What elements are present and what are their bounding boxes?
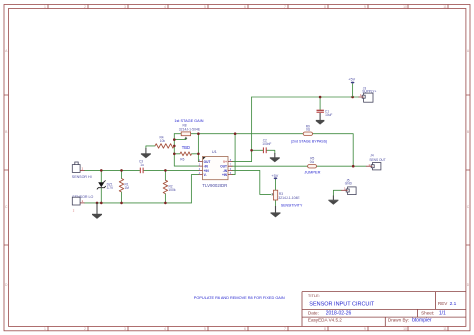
wire: R2 top lead	[164, 170, 166, 180]
svg-text:11: 11	[443, 327, 447, 331]
wire: R3 bottom stem to ground	[275, 200, 277, 207]
svg-text:TLV9002IDR: TLV9002IDR	[202, 183, 227, 188]
svg-text:10uF: 10uF	[325, 113, 332, 117]
right ticks	[466, 95, 470, 245]
capacitor C1 10uF	[317, 110, 333, 117]
svg-text:SENSOR INPUT CIRCUIT: SENSOR INPUT CIRCUIT	[309, 301, 375, 307]
svg-text:Date:: Date:	[308, 311, 319, 316]
wire: R5 right to J4	[317, 165, 367, 167]
junction DZ1 bottom on GND net	[100, 202, 103, 205]
resistor R2 100k	[163, 180, 176, 194]
svg-text:8: 8	[324, 327, 326, 331]
svg-text:Sheet:: Sheet:	[421, 311, 434, 316]
wire: R9 right to J4 node	[313, 134, 354, 167]
svg-text:2.1: 2.1	[450, 301, 457, 307]
junction R1 top on SENSOR_HI net	[120, 169, 123, 172]
+5V power flag (R3)	[271, 174, 278, 179]
svg-text:4: 4	[164, 5, 166, 9]
wire: branch down to +IN B	[232, 134, 235, 175]
wire: C2 right to ground	[267, 150, 275, 153]
wire: J5 to ground	[333, 190, 341, 196]
resistor R4 10k	[155, 136, 174, 149]
ground (C2)	[270, 153, 280, 162]
wire: C3 to U1 +IN A	[144, 169, 199, 171]
svg-text:100k: 100k	[168, 188, 176, 192]
svg-text:SENSITIVITY: SENSITIVITY	[281, 203, 303, 207]
ground (R4)	[141, 148, 151, 158]
svg-text:TBD: TBD	[182, 145, 190, 150]
svg-text:3214J-1-104E: 3214J-1-104E	[278, 196, 300, 200]
svg-text:GND: GND	[345, 181, 353, 185]
junction ground stem on GND net	[96, 202, 99, 205]
wire: R6 left lead	[174, 153, 180, 155]
wire: R1 bottom lead	[121, 192, 123, 203]
wire: stage-1 output line to R9	[198, 133, 303, 135]
svg-text:4: 4	[164, 327, 166, 331]
ground (LO net)	[92, 203, 102, 218]
wire: R8 right lead	[191, 133, 199, 135]
svg-text:9: 9	[364, 5, 366, 9]
svg-text:9: 9	[364, 327, 366, 331]
wire: +5V rail	[252, 96, 359, 98]
wire: C1 top lead	[319, 97, 321, 110]
svg-text:3214J-1-504E: 3214J-1-504E	[179, 127, 201, 131]
ground (R3)	[271, 206, 281, 217]
svg-text:Drawn By:: Drawn By:	[388, 317, 409, 322]
svg-text:5: 5	[204, 5, 206, 9]
U1 pin names left: OUT -IN +IN V-	[204, 160, 211, 177]
wire: -IN B to R3 wiper	[232, 170, 271, 194]
svg-text:EasyEDA V4.5.2: EasyEDA V4.5.2	[308, 317, 342, 322]
svg-text:3.7V: 3.7V	[107, 186, 114, 190]
wire: OUT A vertical to feedback line	[197, 134, 199, 162]
connector J1 SENSOR HI	[72, 162, 92, 179]
svg-text:1/1: 1/1	[439, 311, 446, 317]
svg-text:0Ω: 0Ω	[306, 127, 311, 131]
title block	[302, 292, 466, 327]
wire: R3 top stem from +5V flag	[275, 179, 277, 190]
wire: R4 right lead	[173, 145, 175, 147]
junction R8 right on OUT_A net	[197, 132, 200, 135]
top ticks	[48, 5, 448, 9]
svg-text:+5V: +5V	[348, 78, 355, 82]
connector J3 SUPPLY+	[359, 86, 377, 102]
svg-text:SENS OUT: SENS OUT	[369, 158, 385, 162]
wire: SENSOR LO / ground line	[85, 202, 192, 204]
U1 pin names right: V+ OUT -IN +IN	[220, 160, 227, 177]
svg-text:TITLE:: TITLE:	[308, 293, 320, 298]
svg-text:3: 3	[124, 5, 126, 9]
svg-text:(2nd STAGE BYPASS): (2nd STAGE BYPASS)	[291, 139, 327, 143]
svg-text:+5V: +5V	[271, 174, 278, 178]
bottom ticks	[48, 326, 448, 330]
svg-text:1u: 1u	[140, 163, 144, 167]
wire: R6 right lead	[192, 153, 199, 155]
resistor R5 0R jumper	[308, 157, 317, 168]
junction R2 top on +IN_A net	[164, 169, 167, 172]
ground (J5)	[328, 196, 338, 205]
junction +IN_B branch on OUT_A net	[234, 132, 237, 135]
wire: R8 wiper to -IN node	[174, 137, 186, 139]
op-amp U1 TLV9002IDR	[199, 149, 233, 188]
svg-text:1: 1	[44, 327, 46, 331]
wire: R1 top lead	[121, 170, 123, 178]
resistor R6 TBD	[180, 145, 192, 162]
junction R8 wiper on -IN_A net	[173, 138, 176, 141]
svg-text:5: 5	[204, 327, 206, 331]
connector J2 SENSOR LO	[72, 195, 93, 212]
svg-text:3: 3	[124, 327, 126, 331]
ground (C1)	[316, 113, 325, 124]
svg-text:8: 8	[324, 5, 326, 9]
junction +5V flag on +5V rail	[351, 96, 354, 99]
svg-text:V-: V-	[204, 173, 207, 177]
junction R6 left on -IN_A net	[173, 153, 176, 156]
capacitor C3	[139, 159, 144, 173]
svg-text:POPULATE R6 AND REMOVE R8 FOR: POPULATE R6 AND REMOVE R8 FOR FIXED GAIN	[194, 296, 285, 300]
wire: SENSOR HI line to C3	[85, 169, 140, 171]
wire: V- down-left route	[191, 175, 198, 203]
svg-text:2: 2	[84, 327, 86, 331]
U1 pin numbers 1-4 and 8-5	[199, 159, 232, 175]
svg-text:11: 11	[443, 5, 447, 9]
junction R6 right on OUT_A net	[197, 153, 200, 156]
svg-text:7: 7	[284, 327, 286, 331]
wire: OUT B to R5	[232, 165, 308, 167]
wire: C2 branch	[252, 149, 263, 151]
svg-text:R6: R6	[180, 158, 184, 162]
junction R1 bottom on GND net	[120, 202, 123, 205]
svg-text:JUMPER: JUMPER	[304, 170, 320, 175]
+5V power flag (rail)	[348, 78, 355, 97]
wire: DZ1 bottom lead	[100, 188, 102, 203]
svg-text:btompier: btompier	[412, 317, 432, 323]
wires	[85, 97, 367, 207]
resistor R1 1M	[119, 179, 129, 193]
junction R9/R5 outputs at J4 node	[352, 165, 355, 168]
svg-text:6: 6	[244, 327, 246, 331]
svg-text:100nF: 100nF	[262, 142, 271, 146]
svg-text:REV: REV	[438, 301, 448, 306]
capacitor C2	[262, 139, 271, 154]
left ticks	[4, 95, 9, 245]
svg-text:1M: 1M	[125, 186, 130, 190]
svg-text:OUT: OUT	[204, 160, 211, 164]
svg-text:+IN: +IN	[222, 173, 228, 177]
svg-text:10: 10	[403, 327, 407, 331]
svg-text:0Ω: 0Ω	[310, 160, 315, 164]
connector J4 SENS OUT	[366, 154, 386, 170]
zener diode DZ1	[97, 180, 114, 190]
svg-text:V+: V+	[223, 160, 227, 164]
svg-text:1st STAGE GAIN: 1st STAGE GAIN	[174, 119, 203, 123]
junction DZ1 top on SENSOR_HI net	[100, 169, 103, 172]
svg-text:U1: U1	[212, 149, 218, 154]
U1 left pin stubs pins 1-4	[199, 162, 233, 175]
svg-text:6: 6	[244, 5, 246, 9]
junction R2 bottom on GND net	[164, 202, 167, 205]
junction C2 branch on +5V net	[250, 149, 253, 152]
svg-text:7: 7	[284, 5, 286, 9]
svg-text:2018-02-26: 2018-02-26	[326, 311, 352, 317]
svg-text:2: 2	[84, 5, 86, 9]
resistor R9 0R bypass	[303, 124, 312, 135]
svg-text:10: 10	[403, 5, 407, 9]
trimmer R8	[179, 124, 201, 139]
connector J5 GND	[341, 179, 356, 195]
wire: R2 bottom lead	[164, 194, 166, 203]
svg-text:1: 1	[44, 5, 46, 9]
svg-text:SENSOR HI: SENSOR HI	[72, 175, 92, 179]
junction R4 right on -IN_A net	[173, 145, 176, 148]
wire: V+ to +5V rail	[232, 97, 252, 162]
wire: -IN A node vertical	[174, 134, 198, 166]
wire: R8 left lead	[174, 133, 181, 135]
wire: ground to R4 left	[146, 146, 155, 149]
junction C1 on +5V rail	[319, 96, 322, 99]
wire: DZ1 top lead	[100, 170, 102, 182]
trimmer R3 SENSITIVITY	[272, 190, 301, 200]
svg-text:10k: 10k	[160, 139, 166, 143]
